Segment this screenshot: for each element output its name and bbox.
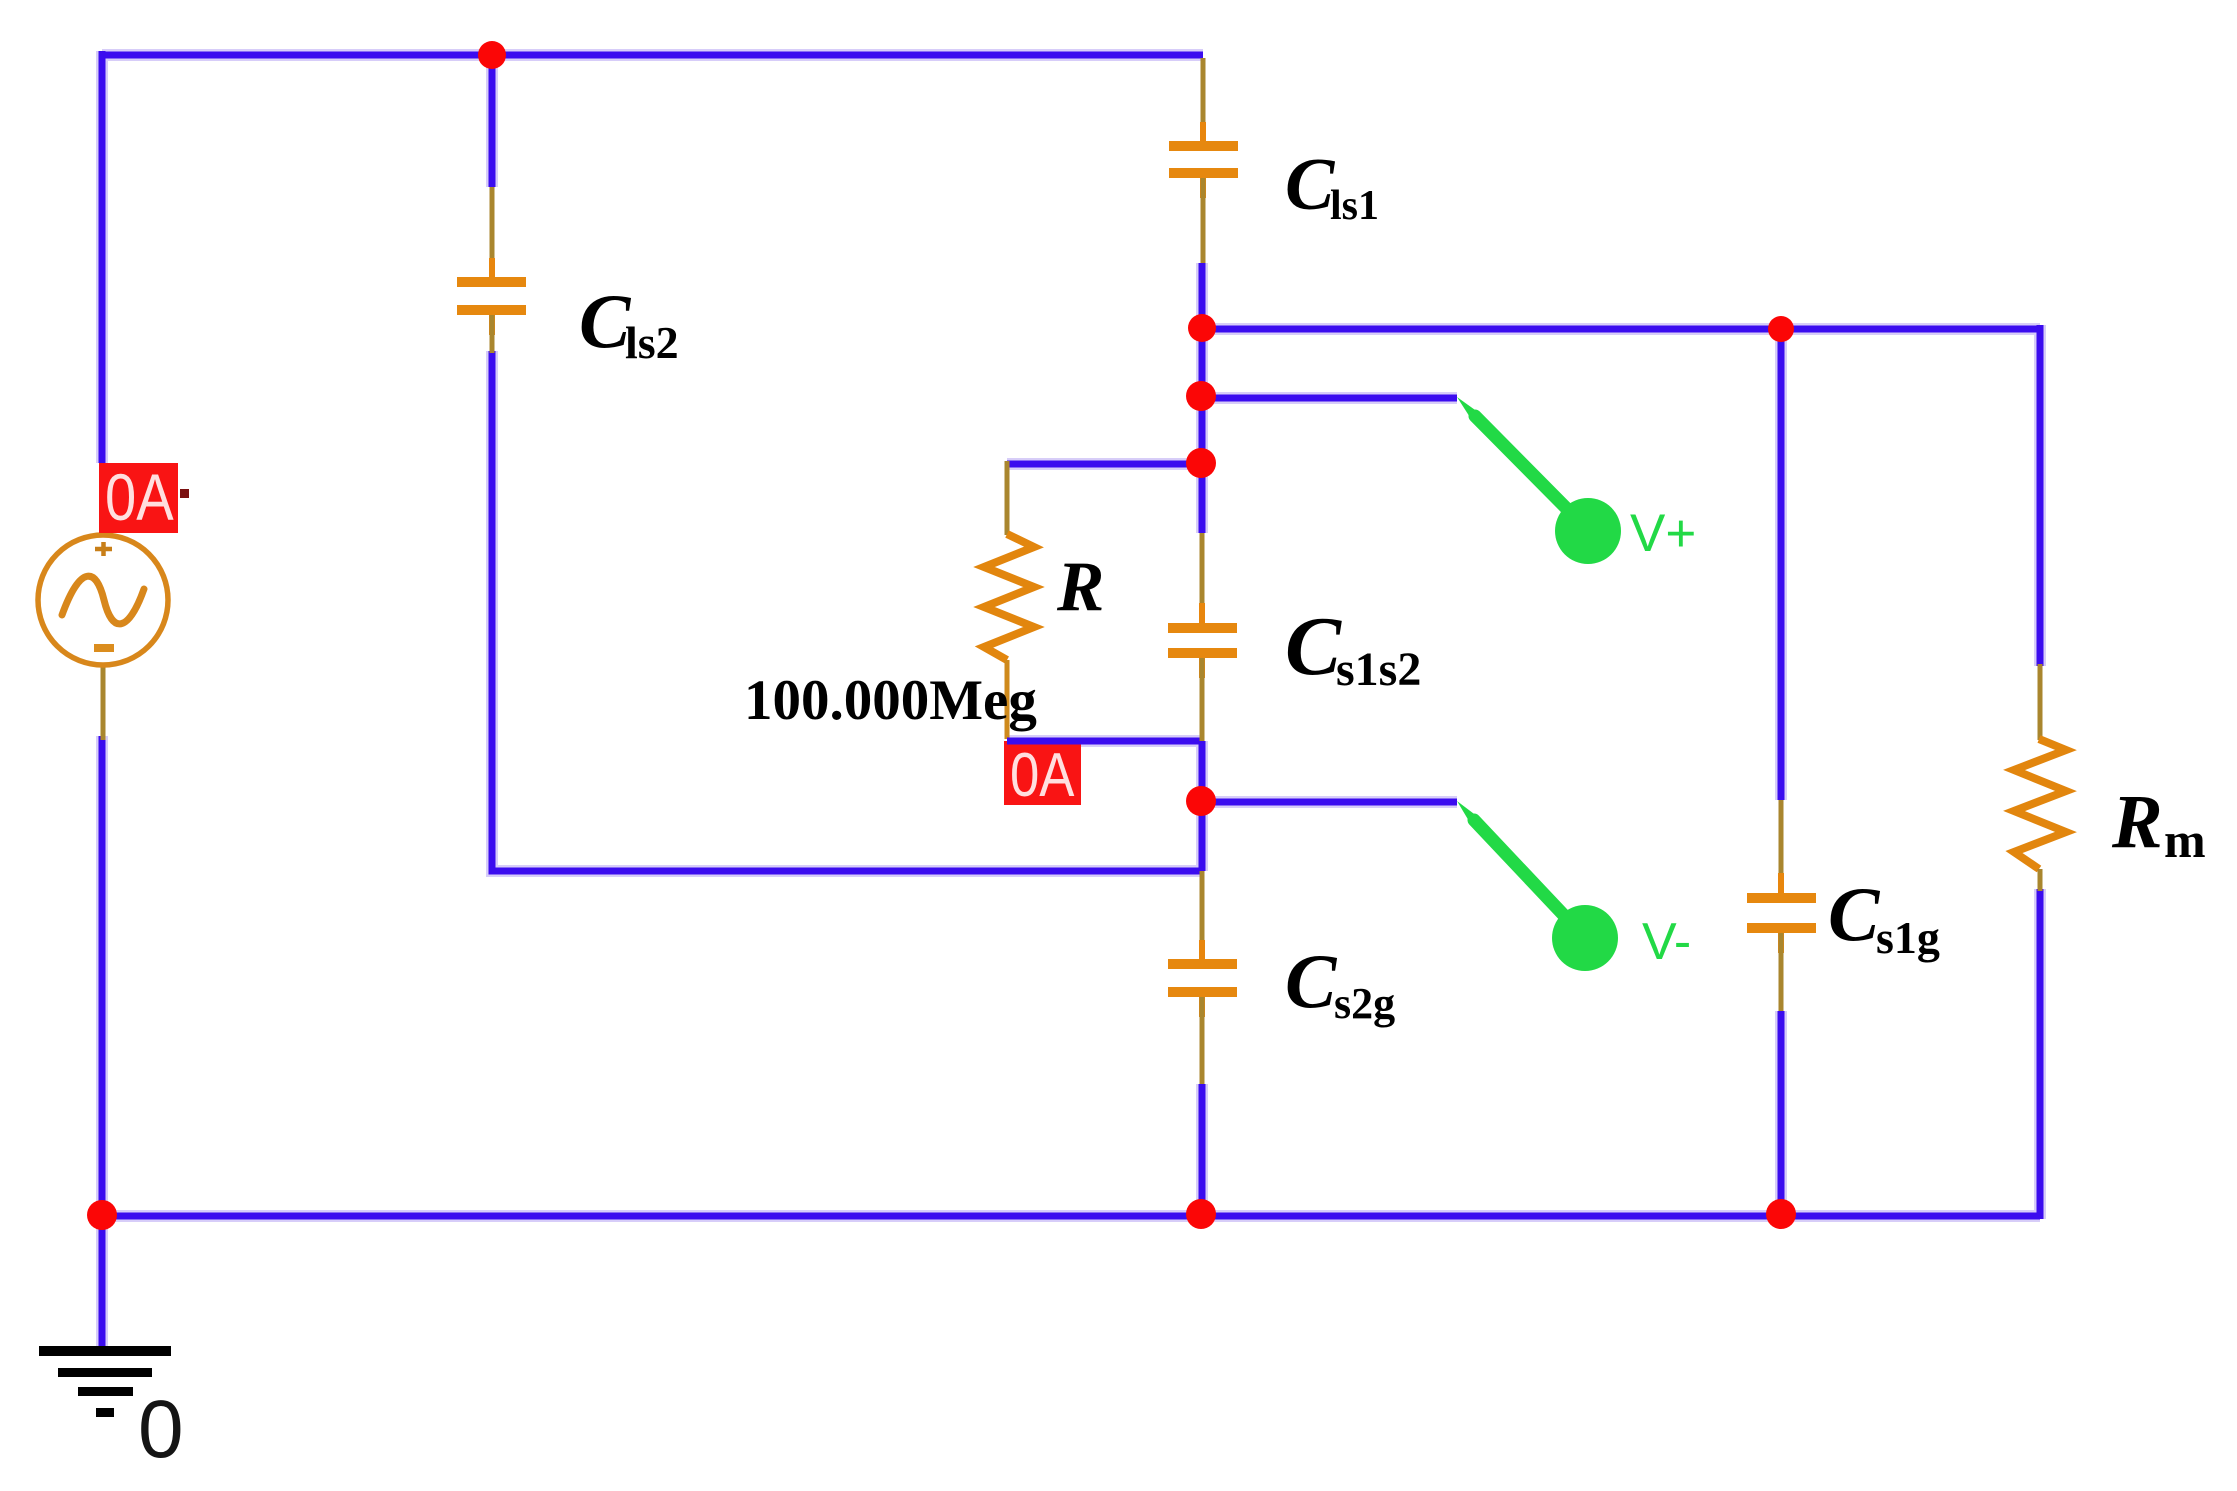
capacitor C_s1s2 plate 2 bbox=[1168, 648, 1237, 658]
resistor R zigzag bbox=[984, 534, 1034, 660]
probe V- needle bbox=[1474, 820, 1574, 926]
junction dot node L (top, C_ls2 tap) bbox=[478, 41, 506, 69]
capacitor C_ls2 lead bottom bbox=[490, 315, 495, 353]
capacitor C_s1g plate 1 bbox=[1747, 893, 1816, 903]
probe V+ needle bbox=[1475, 416, 1577, 519]
junction dot node S1 (middle rail y329) bbox=[1188, 314, 1216, 342]
svg-text:100.000Meg: 100.000Meg bbox=[744, 669, 1037, 732]
capacitor C_s1s2 lead top bbox=[1200, 533, 1205, 622]
resistor Rm lead top bbox=[2038, 664, 2043, 740]
capacitor C_s2g lead top bbox=[1200, 871, 1205, 960]
svg-text:R: R bbox=[2111, 780, 2163, 864]
ground symbol bar2 bbox=[58, 1368, 152, 1377]
svg-text:C: C bbox=[1828, 871, 1881, 957]
junction dot ground rail middle bbox=[1186, 1199, 1216, 1229]
junction dot R tap (middle rail y463) bbox=[1186, 448, 1216, 478]
svg-text:s1g: s1g bbox=[1876, 912, 1940, 963]
ground symbol bar1 bbox=[39, 1346, 171, 1356]
capacitor C_ls1 plate 1 bbox=[1169, 141, 1238, 151]
ground symbol bar3 bbox=[78, 1387, 133, 1396]
capacitor C_s2g lead bottom bbox=[1200, 997, 1205, 1084]
svg-text:R: R bbox=[1056, 548, 1104, 626]
resistor R lead bottom bbox=[1005, 660, 1010, 739]
capacitor C_s2g plate 2 bbox=[1168, 987, 1237, 997]
current label 0A (source) box bbox=[99, 463, 178, 533]
capacitor C_ls1 lead bottom bbox=[1201, 178, 1206, 263]
svg-text:V-: V- bbox=[1642, 913, 1691, 971]
voltage source V1 lead bottom bbox=[101, 663, 106, 740]
capacitor C_ls2 plate 1 bbox=[457, 277, 526, 287]
capacitor C_ls1 lead top bbox=[1201, 58, 1206, 141]
capacitor C_ls1 pin top bbox=[1200, 122, 1206, 142]
capacitor C_s1g plate 2 bbox=[1747, 923, 1816, 933]
svg-text:s2g: s2g bbox=[1334, 979, 1395, 1028]
capacitor C_s2g pin bottom bbox=[1199, 997, 1205, 1017]
voltage source V1 minus mark bbox=[94, 644, 114, 652]
svg-text:0: 0 bbox=[138, 1384, 184, 1475]
junction dot C_s1g tap (node S1 y329) bbox=[1768, 316, 1794, 342]
svg-text:ls1: ls1 bbox=[1330, 183, 1379, 229]
capacitor C_s2g pin top bbox=[1199, 940, 1205, 960]
wire core strokes bbox=[102, 51, 2040, 1350]
svg-text:C: C bbox=[1285, 600, 1342, 693]
probe V- ball bbox=[1552, 905, 1618, 971]
svg-text:0A: 0A bbox=[105, 461, 174, 534]
capacitor C_s1s2 pin bottom bbox=[1199, 658, 1205, 678]
capacitor C_ls1 pin bottom bbox=[1200, 178, 1206, 198]
svg-text:s1s2: s1s2 bbox=[1336, 643, 1421, 696]
capacitor C_s1g pin bottom bbox=[1778, 933, 1784, 953]
voltage source V1 plus mark bbox=[95, 542, 112, 556]
capacitor C_s1s2 pin top bbox=[1199, 603, 1205, 623]
capacitor C_s2g plate 1 bbox=[1168, 959, 1237, 969]
capacitor C_ls2 lead top bbox=[490, 187, 495, 277]
resistor Rm lead bottom bbox=[2038, 869, 2043, 891]
capacitor C_s1g pin top bbox=[1778, 873, 1784, 893]
capacitor C_ls2 pin bottom bbox=[489, 315, 495, 335]
junction dot ground rail right bbox=[1766, 1199, 1796, 1229]
voltage source V1 body bbox=[38, 535, 168, 665]
capacitor C_s1s2 lead bottom bbox=[1200, 658, 1205, 741]
capacitor C_s1s2 plate 1 bbox=[1168, 623, 1237, 633]
svg-text:m: m bbox=[2164, 812, 2206, 868]
current label 0A (R branch) box bbox=[1004, 741, 1081, 805]
svg-text:V+: V+ bbox=[1630, 504, 1696, 563]
capacitor C_ls2 pin top bbox=[489, 258, 495, 278]
capacitor C_s1g lead top bbox=[1779, 800, 1784, 892]
ground symbol bar4 bbox=[96, 1408, 114, 1417]
svg-text:C: C bbox=[1285, 938, 1338, 1024]
svg-text:C: C bbox=[1285, 144, 1336, 226]
resistor Rm zigzag bbox=[2014, 739, 2066, 869]
probe V+ ball bbox=[1555, 498, 1621, 564]
capacitor C_s1g lead bottom bbox=[1779, 933, 1784, 1011]
junction dot V- tap (middle rail y801) bbox=[1186, 786, 1216, 816]
junction dot V+ tap (middle rail y396) bbox=[1186, 381, 1216, 411]
current label 0A (source) pointer speck bbox=[180, 489, 189, 498]
resistor R lead top bbox=[1005, 461, 1010, 535]
capacitor C_ls2 plate 2 bbox=[457, 305, 526, 315]
wire glow underlay bbox=[102, 51, 2040, 1350]
junction dot ground rail left bbox=[87, 1200, 117, 1230]
svg-text:ls2: ls2 bbox=[625, 317, 679, 368]
svg-text:0A: 0A bbox=[1010, 741, 1075, 810]
wire R bottom horizontal overlay bbox=[1007, 738, 1202, 745]
voltage source V1 sine bbox=[62, 576, 144, 624]
capacitor C_ls1 plate 2 bbox=[1169, 168, 1238, 178]
